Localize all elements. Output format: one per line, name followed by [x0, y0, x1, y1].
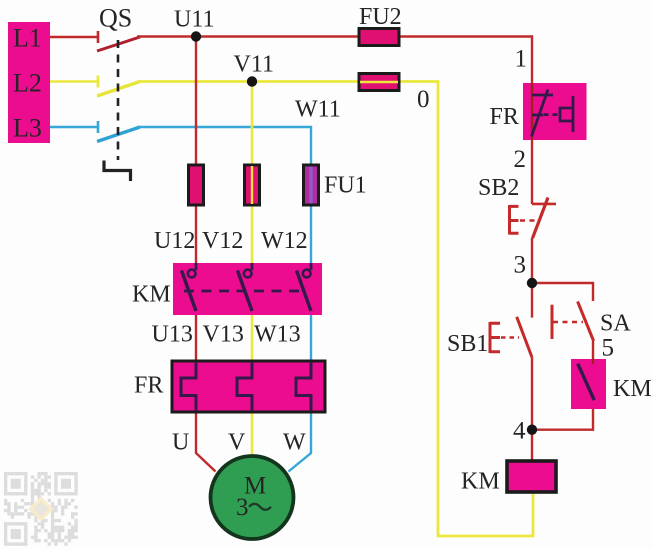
svg-text:SA: SA — [600, 311, 631, 337]
svg-text:U13: U13 — [152, 322, 193, 348]
svg-text:3: 3 — [514, 252, 527, 279]
svg-text:L2: L2 — [13, 69, 42, 98]
svg-text:U12: U12 — [154, 228, 195, 254]
svg-text:W13: W13 — [254, 322, 301, 348]
svg-text:QS: QS — [99, 4, 132, 33]
svg-text:U: U — [172, 430, 189, 456]
svg-text:SB1: SB1 — [447, 331, 488, 357]
svg-text:V11: V11 — [234, 52, 274, 78]
svg-text:3: 3 — [236, 494, 249, 521]
svg-text:1: 1 — [515, 46, 528, 73]
svg-text:FR: FR — [490, 104, 519, 130]
svg-text:W11: W11 — [295, 97, 341, 123]
svg-text:W12: W12 — [261, 228, 308, 254]
svg-text:4: 4 — [513, 418, 526, 445]
svg-text:V12: V12 — [202, 228, 243, 254]
svg-text:SB2: SB2 — [478, 175, 519, 201]
svg-text:FU1: FU1 — [324, 173, 367, 199]
svg-text:V: V — [228, 430, 246, 456]
svg-text:FR: FR — [134, 373, 163, 399]
svg-text:L1: L1 — [13, 24, 42, 53]
svg-text:U11: U11 — [174, 7, 214, 33]
svg-text:5: 5 — [602, 335, 615, 362]
svg-text:W: W — [283, 430, 306, 456]
svg-text:V13: V13 — [203, 322, 244, 348]
svg-text:KM: KM — [132, 282, 171, 308]
svg-text:L3: L3 — [13, 114, 42, 143]
svg-text:KM: KM — [613, 376, 652, 402]
svg-text:FU2: FU2 — [359, 4, 402, 30]
svg-text:2: 2 — [514, 146, 527, 173]
svg-text:0: 0 — [417, 86, 430, 113]
svg-text:KM: KM — [461, 469, 500, 495]
